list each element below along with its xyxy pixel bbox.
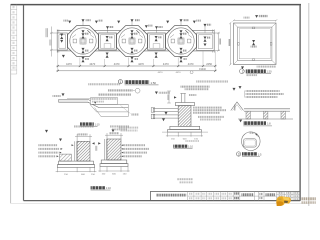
upper slab band xyxy=(59,100,100,108)
svg-text:1:8: 1:8 xyxy=(267,123,271,126)
signature strip column xyxy=(11,5,17,74)
below-right note xyxy=(257,66,277,68)
center markers xyxy=(252,40,255,43)
dimension line 1 xyxy=(57,62,217,67)
base layer xyxy=(90,104,128,116)
left pier column hatched xyxy=(77,141,90,161)
svg-text:4470: 4470 xyxy=(138,62,144,66)
inner square xyxy=(238,27,272,60)
notes under right part xyxy=(119,127,139,129)
svg-text:4470: 4470 xyxy=(89,62,95,66)
right end room xyxy=(197,30,215,53)
innermost faint square xyxy=(239,29,270,59)
left pier top note xyxy=(74,125,94,127)
svg-text:4470: 4470 xyxy=(188,62,194,66)
right vertical dimension of plan xyxy=(215,32,222,52)
outer square xyxy=(234,23,277,65)
left dimension xyxy=(229,22,232,66)
leader to note xyxy=(121,105,131,113)
label xyxy=(173,145,193,149)
left pier annotations xyxy=(38,144,73,157)
watermark xyxy=(276,196,316,206)
sheet right edge xyxy=(308,3,310,206)
posts xyxy=(246,111,250,119)
detail C column top plan xyxy=(229,15,278,76)
below-circle markers xyxy=(82,57,188,62)
main title text xyxy=(156,194,186,197)
top annotation xyxy=(255,15,258,18)
svg-text:4470: 4470 xyxy=(158,72,164,74)
detail E piers xyxy=(38,125,193,190)
small cell texts xyxy=(189,193,232,200)
left vertical dimension xyxy=(46,27,58,57)
label xyxy=(91,186,112,190)
left vertical dim xyxy=(167,91,171,103)
frame left line xyxy=(23,5,25,201)
svg-text:3: 3 xyxy=(238,152,240,156)
svg-text:1:10: 1:10 xyxy=(95,123,100,126)
title block xyxy=(150,192,300,201)
right pier top dimension xyxy=(105,133,123,139)
frame top line xyxy=(11,4,301,6)
label circled xyxy=(236,152,262,157)
right annotation block xyxy=(246,90,280,92)
pergola bottom chord lines xyxy=(57,50,214,52)
pavilion circle 1 xyxy=(68,26,99,57)
pavilion circle 3 xyxy=(166,26,197,57)
frame bottom line xyxy=(24,200,301,202)
room top callouts xyxy=(106,24,211,33)
note above xyxy=(196,80,228,82)
base slabs xyxy=(170,126,200,129)
dividers xyxy=(188,192,300,201)
dim bubble right xyxy=(190,71,193,74)
bubble circle xyxy=(242,132,261,151)
plan group xyxy=(46,19,221,85)
beam xyxy=(244,108,290,110)
right pier base xyxy=(101,160,127,164)
svg-text:4470: 4470 xyxy=(114,62,120,66)
column hatched xyxy=(178,106,191,127)
right pier top notes xyxy=(110,125,129,127)
room between 2 and 3 xyxy=(148,33,166,58)
under-plan note left xyxy=(88,83,120,85)
right pier column hatched xyxy=(107,139,121,160)
svg-text:4470: 4470 xyxy=(176,72,182,74)
label circled 2 xyxy=(240,69,273,76)
right pier annotations xyxy=(121,144,149,157)
top annotation lines xyxy=(181,86,210,88)
svg-text:2: 2 xyxy=(242,70,244,74)
detail F center pier xyxy=(151,80,228,148)
detail H section bubble xyxy=(236,132,262,157)
bottom dimension xyxy=(166,132,203,137)
right pier facing lines xyxy=(104,139,106,160)
lower slab band xyxy=(91,104,129,107)
label xyxy=(80,122,100,126)
gray watermark text right of frame xyxy=(301,197,316,200)
ground line xyxy=(238,118,293,120)
label xyxy=(243,121,272,126)
svg-text:1:50: 1:50 xyxy=(151,81,157,85)
sheet left edge xyxy=(10,4,12,204)
annotation text line 2 xyxy=(98,94,131,96)
annotation text line 1 with bubble xyxy=(108,89,133,91)
plan title xyxy=(118,80,158,85)
dim marks xyxy=(249,132,254,134)
yellow logo blob xyxy=(276,196,291,206)
section cut arrows between piers xyxy=(92,142,95,144)
left pier bottom dimension xyxy=(56,167,97,172)
pergola top chord lines xyxy=(57,29,214,31)
callout markers xyxy=(233,88,236,91)
left pier seat arm xyxy=(60,154,72,161)
pavilion circle 2 xyxy=(117,26,148,57)
bottom arrow xyxy=(241,66,244,69)
left beams xyxy=(151,108,178,122)
detail G roof edge xyxy=(231,86,293,126)
miter corner diagonals xyxy=(234,23,277,65)
sheet bottom edge xyxy=(11,202,309,204)
post above cap xyxy=(180,93,185,102)
svg-text:4470: 4470 xyxy=(66,62,72,66)
right annotations xyxy=(193,107,226,121)
svg-text:2250: 2250 xyxy=(206,62,212,66)
roof slope profile xyxy=(231,102,244,111)
leader arrow and bracket xyxy=(62,93,65,96)
rounded section xyxy=(244,139,257,147)
left pier facing lines xyxy=(74,141,76,161)
svg-text:4470: 4470 xyxy=(163,62,169,66)
callout markers xyxy=(45,130,48,133)
svg-text:1:10: 1:10 xyxy=(188,146,193,149)
notes right below xyxy=(177,178,193,180)
top callout pavilion 3 xyxy=(166,19,201,33)
top callout pavilion 2 xyxy=(117,19,153,33)
dimension extension lines xyxy=(58,51,215,72)
top dimension xyxy=(233,19,278,21)
mid-edge ticks xyxy=(238,27,272,60)
svg-text:1:10: 1:10 xyxy=(106,187,111,190)
left end room xyxy=(57,30,67,58)
svg-text:19440: 19440 xyxy=(199,68,206,71)
dimension line 2 xyxy=(57,68,217,72)
svg-text:1:20: 1:20 xyxy=(267,70,273,74)
ground line xyxy=(162,131,208,133)
room between 1 and 2 xyxy=(99,33,117,58)
left pier top dimension xyxy=(75,134,92,141)
svg-text:1:5: 1:5 xyxy=(258,152,262,156)
frame right line xyxy=(299,5,301,201)
right pier bottom dimension xyxy=(98,167,129,172)
left pier base xyxy=(59,161,94,165)
top callout pavilion 1 xyxy=(63,19,103,33)
detail D stepped section xyxy=(53,88,141,131)
cap xyxy=(175,103,194,106)
curb box on step xyxy=(91,98,118,105)
